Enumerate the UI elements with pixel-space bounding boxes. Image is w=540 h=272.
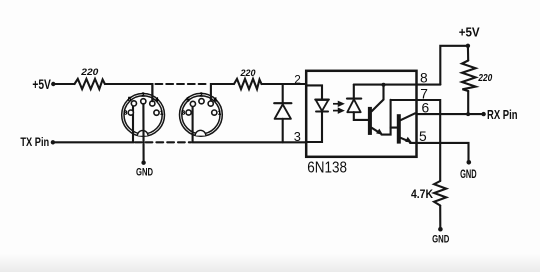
photodiode D3 inside U1: [347, 85, 368, 120]
svg-text:GND: GND: [136, 166, 153, 178]
wire +5V to R1: [55, 83, 75, 85]
wire dashed cable bottom: [135, 141, 191, 143]
wire R3 to RX junction: [467, 91, 469, 114]
transistor Q1 inside U1: [368, 85, 391, 135]
svg-text:5: 5: [186, 98, 189, 104]
svg-text:5: 5: [128, 97, 131, 103]
svg-text:2: 2: [294, 72, 301, 86]
node RX junction: [466, 112, 470, 116]
svg-text:+5V: +5V: [32, 77, 51, 92]
svg-text:4: 4: [214, 97, 217, 103]
resistor R3 220 pull-up: [462, 61, 493, 92]
svg-text:4: 4: [155, 97, 158, 103]
internal VCC rail pin8: [354, 84, 441, 86]
wire R1 to DIN1 pin4 corner: [105, 84, 152, 101]
connector J2 DIN-5 right: [180, 93, 223, 137]
wire DIN2 pin5 down and right to U1 pin3: [193, 107, 306, 142]
wire DIN1 pin4 drop: [151, 84, 153, 101]
wire U1 pin7 stub to 4.7K: [391, 100, 441, 181]
wire R4 to GND: [439, 206, 441, 230]
transistor Q2 inside U1: [397, 113, 415, 143]
svg-text:2: 2: [200, 93, 203, 99]
svg-text:GND: GND: [460, 167, 477, 181]
LED D2 inside U1: [306, 85, 329, 142]
svg-text:GND: GND: [432, 234, 449, 246]
wire DIN2 pin4 up to R2: [211, 84, 234, 102]
svg-text:5: 5: [419, 129, 427, 144]
wire U1 pin7 internal to Q2 base: [391, 127, 397, 129]
wire dashed cable top: [156, 83, 208, 85]
svg-text:220: 220: [240, 68, 257, 78]
wire DIN1 pin2 to GND: [142, 104, 144, 163]
svg-text:RX Pin: RX Pin: [487, 108, 518, 122]
svg-text:3: 3: [124, 110, 127, 116]
svg-text:1: 1: [218, 110, 221, 116]
connector J1 DIN-5 left: [122, 93, 165, 137]
op-amp U1 6N138 package box: [306, 71, 416, 177]
wire U1 pin5 to GND: [410, 143, 469, 162]
svg-text:3: 3: [294, 129, 301, 144]
svg-text:220: 220: [478, 73, 493, 84]
wire TX to DIN1 pin5: [55, 106, 133, 142]
node +5V right: [459, 26, 481, 48]
light arrows inside U1: [333, 102, 343, 113]
svg-text:8: 8: [420, 71, 428, 86]
svg-text:TX Pin: TX Pin: [20, 135, 49, 149]
svg-text:6N138: 6N138: [307, 160, 347, 177]
node +5V left label: [32, 77, 55, 92]
ground GND bottom right: [432, 227, 449, 246]
svg-text:1: 1: [160, 111, 163, 117]
wire pin8 stub to +5V: [440, 46, 468, 85]
diode D1 1N4148: [274, 84, 291, 142]
node RX Pin label: [481, 108, 517, 122]
ground GND pin5: [460, 160, 477, 181]
wire U1 pin6 RX line: [417, 113, 484, 115]
node T1 collector junction: [382, 83, 386, 87]
svg-text:220: 220: [80, 67, 98, 77]
svg-text:2: 2: [141, 93, 144, 99]
wire R2 to U1 pin2: [262, 83, 307, 85]
resistor R4 4.7K: [411, 181, 446, 206]
ground GND under DIN1: [136, 161, 153, 179]
svg-text:3: 3: [182, 110, 185, 116]
wire +5V down to R3: [467, 46, 469, 61]
resistor R1 220: [75, 67, 105, 89]
resistor R2 220: [234, 68, 262, 89]
svg-text:4.7K: 4.7K: [411, 187, 433, 201]
svg-text:+5V: +5V: [459, 26, 481, 40]
node TX Pin label: [20, 135, 55, 149]
